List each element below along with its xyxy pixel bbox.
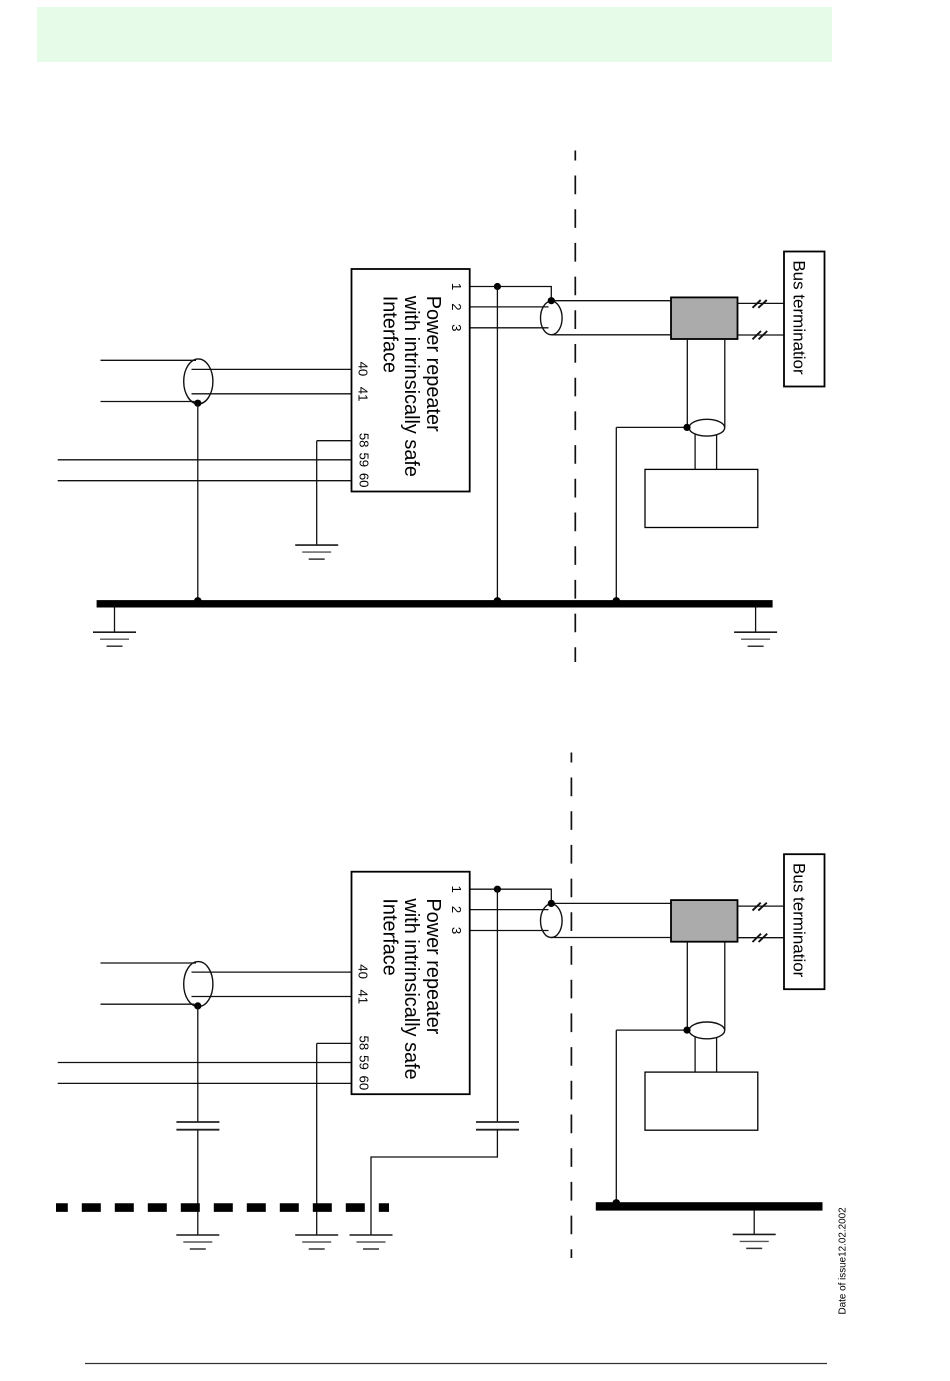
svg-text:Date of issue12.02.2002: Date of issue12.02.2002 [837,1207,848,1314]
